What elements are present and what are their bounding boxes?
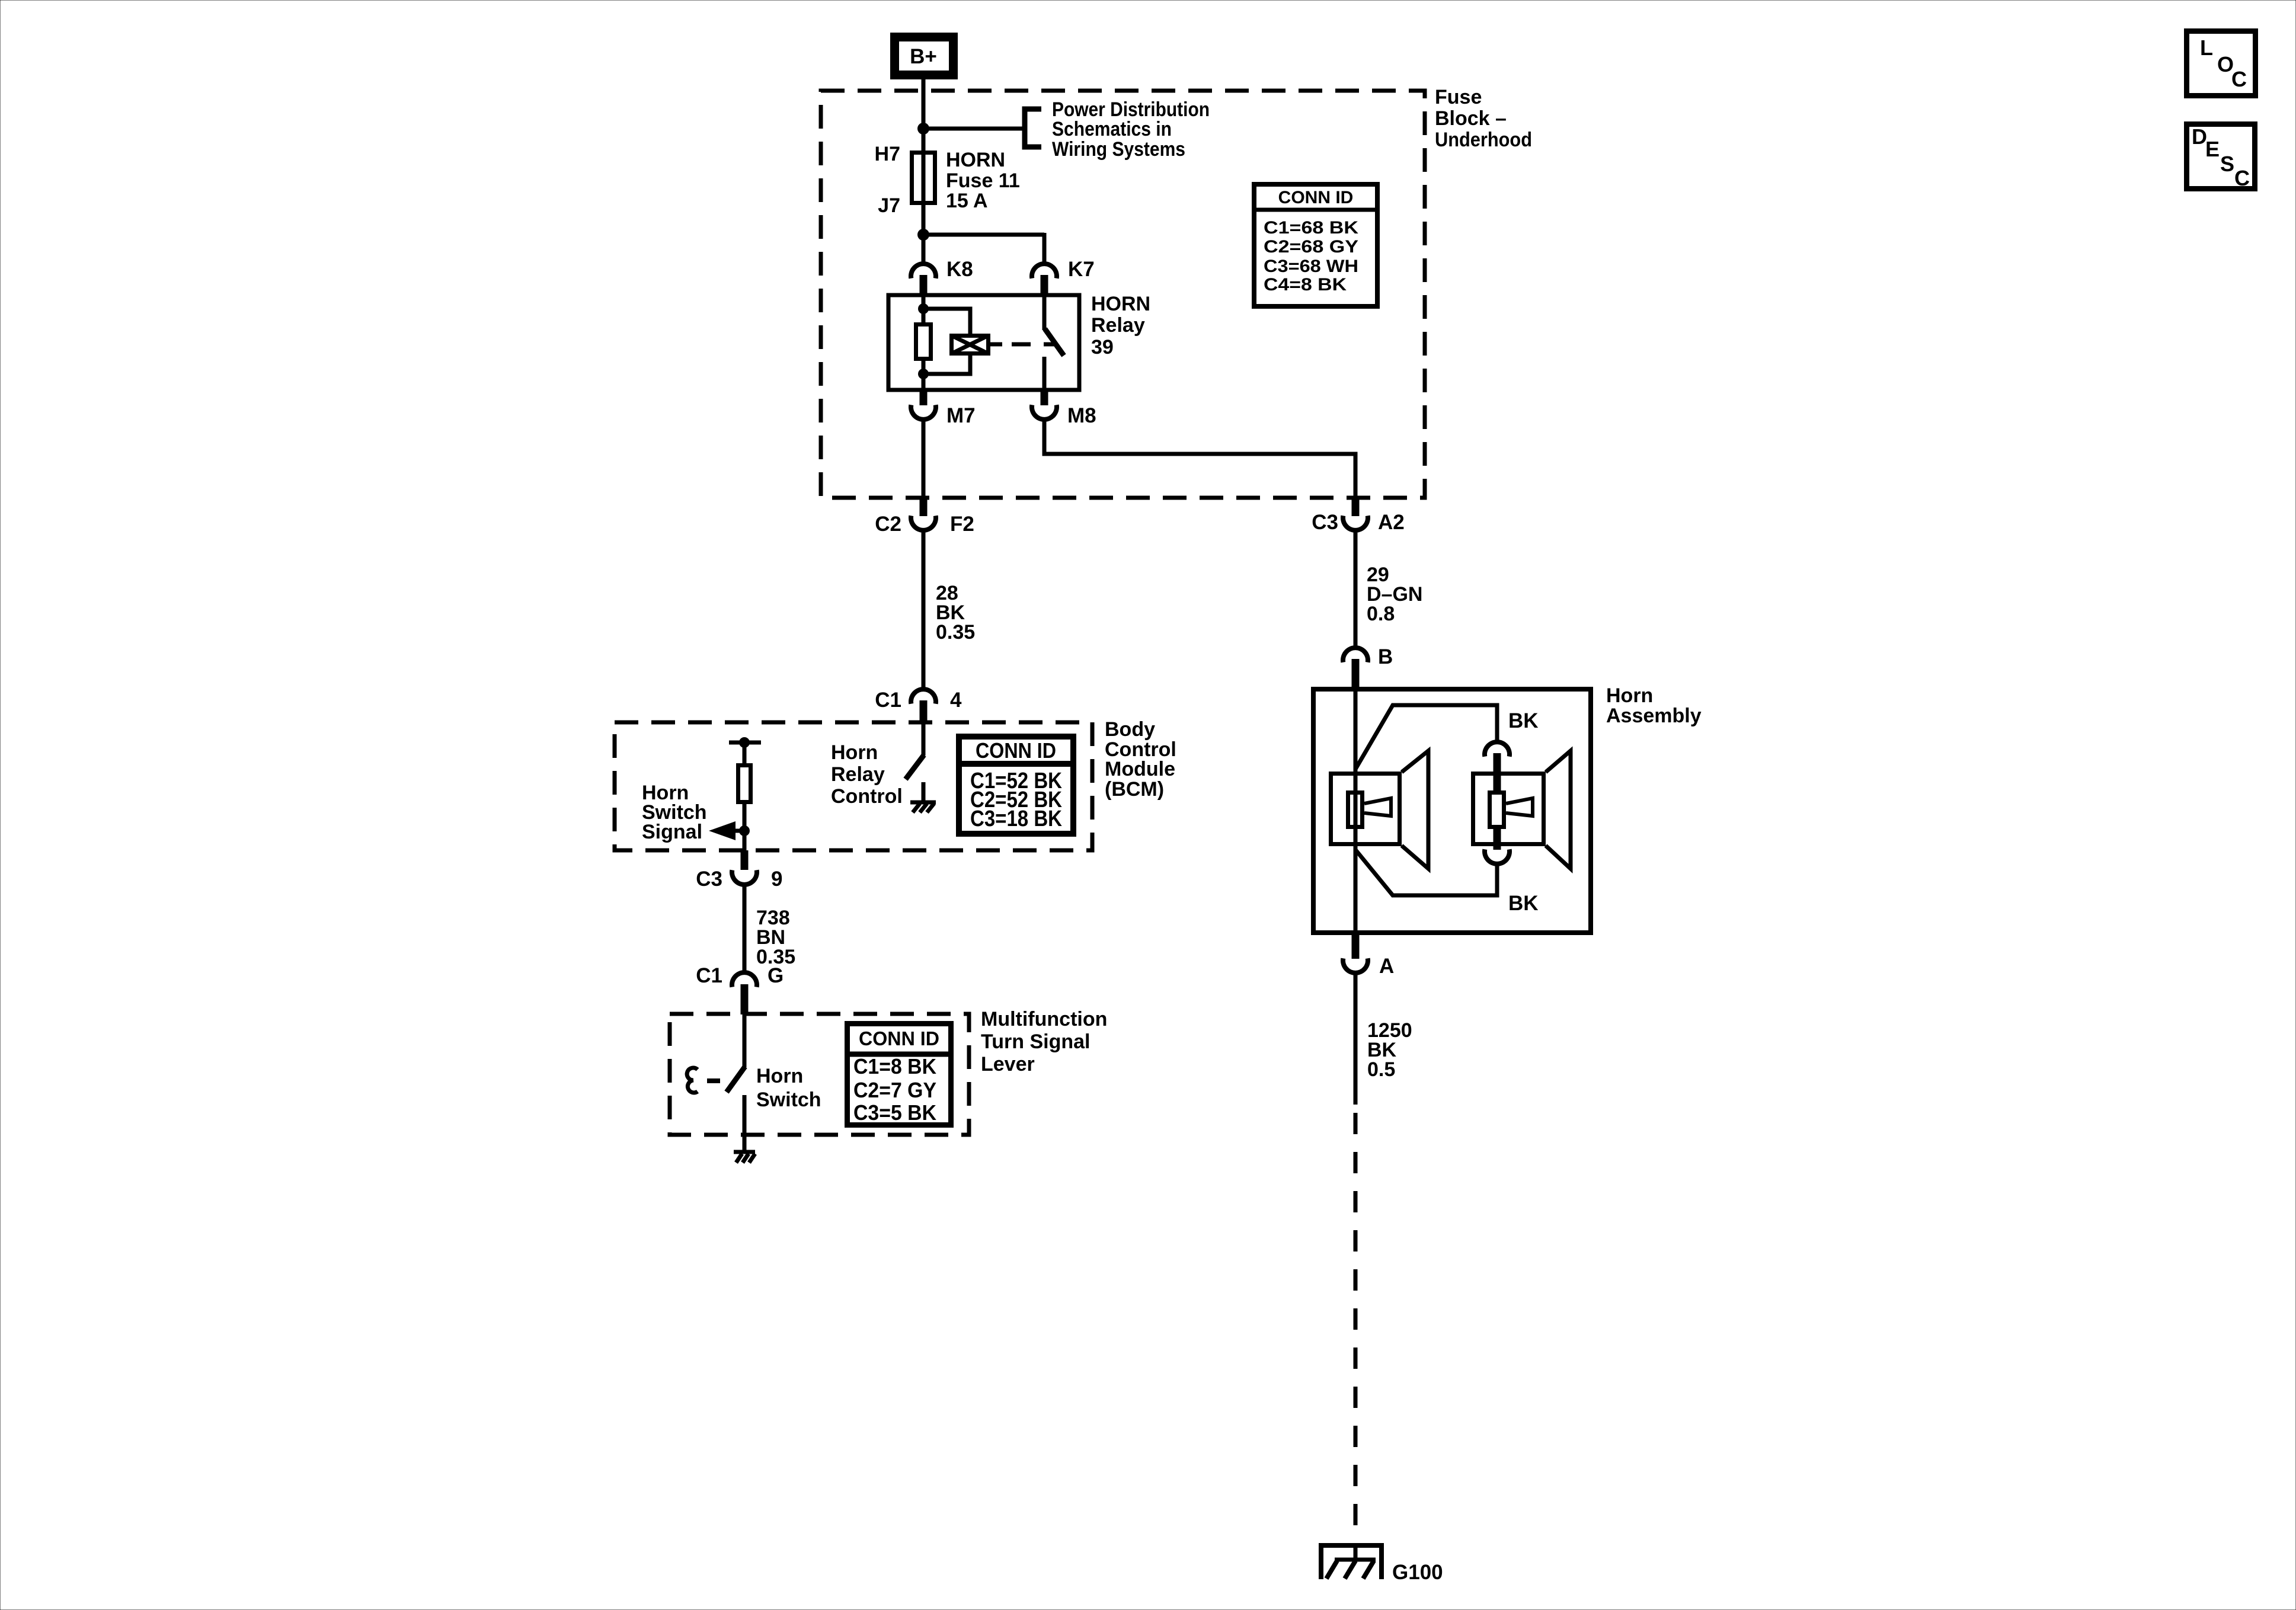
svg-text:B: B bbox=[1378, 645, 1393, 668]
svg-text:M7: M7 bbox=[946, 404, 976, 427]
svg-text:CONN ID: CONN ID bbox=[976, 738, 1056, 763]
svg-text:0.8: 0.8 bbox=[1367, 603, 1395, 625]
svg-text:J7: J7 bbox=[878, 194, 900, 217]
svg-text:39: 39 bbox=[1091, 336, 1114, 359]
svg-text:(BCM): (BCM) bbox=[1105, 778, 1164, 801]
svg-text:C2=68 GY: C2=68 GY bbox=[1264, 237, 1358, 257]
svg-text:Signal: Signal bbox=[642, 821, 702, 843]
svg-text:C: C bbox=[2231, 67, 2247, 91]
svg-text:HORN: HORN bbox=[946, 149, 1005, 171]
svg-text:Body: Body bbox=[1105, 718, 1155, 741]
svg-text:Wiring Systems: Wiring Systems bbox=[1052, 138, 1185, 161]
svg-text:C1: C1 bbox=[696, 964, 722, 987]
svg-text:C1=8 BK: C1=8 BK bbox=[853, 1054, 936, 1078]
svg-text:C3=5 BK: C3=5 BK bbox=[853, 1100, 936, 1125]
svg-text:4: 4 bbox=[950, 689, 962, 712]
svg-text:K8: K8 bbox=[946, 258, 973, 281]
svg-text:0.35: 0.35 bbox=[936, 621, 975, 644]
svg-text:A2: A2 bbox=[1378, 511, 1405, 534]
svg-text:Block –: Block – bbox=[1435, 107, 1507, 130]
svg-text:H7: H7 bbox=[875, 143, 900, 165]
svg-text:Underhood: Underhood bbox=[1435, 129, 1532, 151]
svg-text:F2: F2 bbox=[950, 513, 974, 536]
svg-text:C: C bbox=[2234, 166, 2250, 190]
svg-text:Assembly: Assembly bbox=[1606, 705, 1702, 727]
svg-text:A: A bbox=[1379, 955, 1394, 978]
svg-text:CONN ID: CONN ID bbox=[859, 1028, 939, 1049]
svg-text:Fuse: Fuse bbox=[1435, 86, 1482, 108]
svg-text:L: L bbox=[2200, 36, 2213, 60]
svg-text:Fuse 11: Fuse 11 bbox=[946, 169, 1020, 192]
svg-text:C3: C3 bbox=[696, 868, 722, 891]
svg-text:B+: B+ bbox=[910, 45, 937, 68]
svg-text:G: G bbox=[768, 964, 784, 987]
svg-text:Switch: Switch bbox=[756, 1089, 821, 1111]
svg-text:Control: Control bbox=[831, 785, 903, 808]
svg-text:Lever: Lever bbox=[981, 1053, 1035, 1076]
svg-text:C2=7 GY: C2=7 GY bbox=[853, 1078, 936, 1102]
svg-text:C1: C1 bbox=[875, 689, 901, 712]
svg-text:C4=8 BK: C4=8 BK bbox=[1264, 275, 1347, 295]
svg-text:Schematics in: Schematics in bbox=[1052, 118, 1172, 140]
svg-text:G100: G100 bbox=[1392, 1561, 1443, 1584]
svg-text:15 A: 15 A bbox=[946, 190, 988, 212]
svg-text:C1=68 BK: C1=68 BK bbox=[1264, 218, 1358, 238]
svg-text:C3: C3 bbox=[1312, 511, 1338, 534]
svg-text:C2: C2 bbox=[875, 513, 901, 536]
svg-text:Multifunction: Multifunction bbox=[981, 1008, 1107, 1030]
svg-text:E: E bbox=[2205, 137, 2220, 161]
svg-text:M8: M8 bbox=[1067, 404, 1096, 427]
svg-text:Horn: Horn bbox=[1606, 684, 1653, 707]
svg-text:K7: K7 bbox=[1068, 258, 1095, 281]
svg-text:Turn Signal: Turn Signal bbox=[981, 1030, 1090, 1053]
svg-text:Horn: Horn bbox=[756, 1065, 803, 1087]
svg-text:Relay: Relay bbox=[831, 763, 885, 786]
svg-text:9: 9 bbox=[771, 868, 782, 891]
svg-text:BK: BK bbox=[1508, 892, 1539, 915]
svg-text:0.5: 0.5 bbox=[1367, 1058, 1395, 1081]
svg-text:HORN: HORN bbox=[1091, 293, 1150, 315]
svg-text:BK: BK bbox=[1508, 709, 1539, 732]
svg-text:Module: Module bbox=[1105, 758, 1175, 780]
svg-text:C3=18 BK: C3=18 BK bbox=[970, 806, 1062, 831]
svg-text:Relay: Relay bbox=[1091, 314, 1145, 337]
svg-text:C3=68 WH: C3=68 WH bbox=[1264, 257, 1358, 276]
svg-text:CONN ID: CONN ID bbox=[1278, 188, 1354, 207]
svg-text:Horn: Horn bbox=[831, 741, 878, 764]
svg-text:S: S bbox=[2220, 152, 2234, 176]
